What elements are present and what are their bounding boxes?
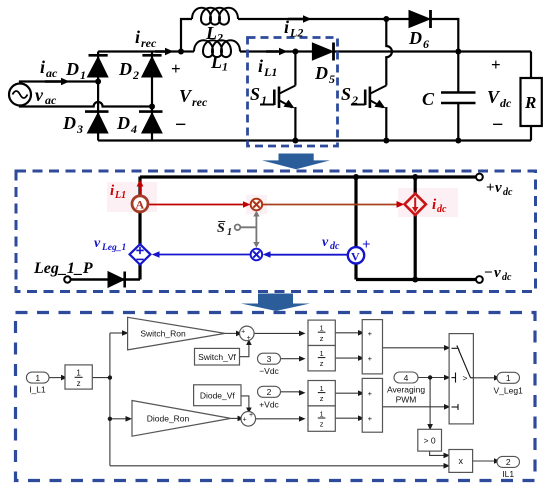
svg-text:1: 1 — [227, 227, 232, 238]
wire port4 down to gt0 — [429, 378, 431, 425]
big arrow 2 — [241, 294, 310, 312]
wire vertical leg left (diamond/ammeter) — [138, 177, 141, 280]
wire vertical idc — [414, 177, 417, 280]
diode D5 body handled below — [334, 50, 532, 52]
svg-text:L1: L1 — [114, 190, 126, 201]
svg-text:z: z — [77, 379, 81, 388]
wire ac bottom (hop over left leg) — [20, 102, 152, 107]
svg-text:V: V — [351, 250, 360, 264]
gain Switch_Ron — [128, 317, 225, 350]
wire switch out — [473, 377, 494, 379]
labels middle panel — [33, 180, 513, 283]
inductor L1 — [194, 40, 240, 57]
svg-text:+: + — [486, 180, 495, 196]
red line multiplier->idc diamond — [262, 204, 397, 206]
unit delay b4 — [308, 406, 335, 431]
svg-text:+Vdc: +Vdc — [259, 399, 279, 409]
svg-text:+: + — [491, 55, 501, 74]
gray S1 control — [235, 211, 260, 248]
svg-text:−: − — [175, 114, 186, 136]
port 2 IL1 — [497, 456, 520, 467]
wire Switch_Ron out — [225, 332, 236, 334]
wire sum2 out — [255, 418, 299, 420]
port 1 I_L1 — [26, 372, 49, 383]
diode D6 — [409, 10, 431, 28]
unit delay 1/z main — [65, 365, 92, 389]
svg-text:+: + — [243, 417, 247, 424]
svg-text:D: D — [118, 59, 132, 79]
svg-text:S: S — [341, 84, 351, 104]
svg-text:1: 1 — [320, 409, 324, 418]
capacitor C leads — [457, 52, 459, 141]
svg-text:D: D — [62, 113, 76, 133]
svg-text:Switch_Ron: Switch_Ron — [140, 329, 186, 339]
svg-text:1: 1 — [222, 60, 228, 74]
svg-text:−: − — [492, 114, 503, 136]
transistor S2 — [351, 86, 386, 141]
sum2 — [241, 412, 256, 427]
wire b3 to sumrect2 — [335, 392, 358, 394]
svg-text:dc: dc — [437, 204, 447, 215]
svg-text:D: D — [65, 59, 79, 79]
svg-text:z: z — [320, 420, 324, 429]
current arrows top — [45, 15, 312, 85]
junction dots top circuit — [95, 16, 461, 144]
block Diode_Vf — [194, 385, 241, 406]
ammeter A — [132, 196, 148, 212]
red measurement line ammeter->multiplier — [137, 180, 405, 208]
svg-text:z: z — [320, 334, 324, 343]
svg-text:2: 2 — [267, 387, 272, 397]
block product x — [449, 450, 473, 473]
wire Switch_Vf out up to sum — [240, 345, 249, 357]
diode D3 — [85, 112, 109, 133]
wire bottom rail — [98, 139, 531, 141]
svg-text:−Vdc: −Vdc — [259, 366, 279, 376]
unit delay b1 — [308, 320, 335, 345]
wire vertical vdc — [354, 177, 357, 280]
svg-text:D: D — [408, 28, 422, 48]
svg-text:dc: dc — [500, 96, 512, 110]
svg-text:i: i — [258, 56, 263, 76]
svg-text:3: 3 — [267, 354, 272, 364]
svg-text:C: C — [422, 89, 435, 109]
wire port4 to switch — [418, 377, 444, 379]
svg-text:L: L — [210, 52, 222, 72]
wire ac top — [20, 82, 98, 84]
voltmeter v_dc — [348, 247, 364, 263]
block Switch_Vf — [195, 348, 240, 365]
wire Diode_Ron out — [231, 417, 238, 419]
svg-text:+: + — [368, 389, 373, 398]
junction dots bottom — [108, 375, 433, 421]
red multiplier — [251, 199, 263, 211]
wire Diode_Vf out down to sum — [241, 396, 249, 408]
blue lines voltmeter->multiplier->diamond — [152, 251, 348, 258]
wire gt0 out to product — [430, 451, 444, 455]
bottom dashed box — [16, 313, 536, 481]
svg-text:+: + — [368, 354, 373, 363]
svg-text:D: D — [314, 63, 328, 83]
svg-text:1: 1 — [320, 324, 324, 333]
svg-text:Leg_1: Leg_1 — [101, 243, 126, 253]
svg-text:I_L1: I_L1 — [29, 385, 46, 395]
wire left bottom (Leg_1_P) — [70, 278, 140, 281]
svg-text:1: 1 — [506, 373, 511, 383]
diode D4 — [139, 112, 163, 133]
wire unit delay out — [92, 377, 110, 379]
wire to Switch_Ron — [110, 332, 122, 334]
resistor R leads — [530, 52, 532, 141]
svg-text:4: 4 — [404, 373, 409, 383]
unit delay b2 — [308, 346, 335, 371]
svg-text:dc: dc — [502, 272, 512, 283]
arrow i_L2 — [288, 15, 312, 22]
current source idc diamond — [405, 194, 426, 215]
svg-text:Diode_Ron: Diode_Ron — [147, 414, 190, 424]
svg-text:dc: dc — [503, 187, 513, 198]
port 3 -Vdc — [258, 353, 281, 364]
svg-text:V_Leg1: V_Leg1 — [494, 386, 524, 396]
wire sumrect1 to switch — [383, 347, 445, 349]
wire L1 to D5 — [240, 50, 312, 52]
port 2 +Vdc — [258, 386, 281, 397]
svg-text:−: − — [484, 265, 493, 281]
Leg-1 dashed box — [248, 38, 338, 147]
diode D5 — [312, 43, 333, 61]
middle dashed box — [16, 171, 536, 292]
svg-text:Switch_Vf: Switch_Vf — [198, 352, 236, 362]
svg-text:3: 3 — [76, 122, 83, 136]
svg-text:S̅: S̅ — [217, 220, 226, 236]
svg-text:1: 1 — [261, 93, 267, 107]
wire D6 to drop — [431, 19, 459, 52]
sum1 — [240, 326, 255, 341]
wire b2 to sumrect1 — [335, 357, 358, 359]
svg-text:+: + — [241, 329, 245, 336]
svg-text:5: 5 — [329, 72, 335, 86]
terminal Leg_1_P — [64, 276, 70, 282]
svg-text:Averaging: Averaging — [387, 385, 425, 395]
ac source vac — [9, 84, 31, 106]
sumrect2 — [362, 378, 382, 432]
svg-text:4: 4 — [130, 122, 137, 136]
svg-text:V: V — [179, 86, 193, 106]
sumrect1 — [362, 320, 382, 374]
wire port3 to b2 — [281, 358, 300, 360]
svg-text:D: D — [116, 113, 130, 133]
wire L2 row to D6 — [238, 18, 409, 20]
svg-text:+: + — [368, 329, 373, 338]
wire vertical branch — [109, 333, 111, 466]
wire sum1 out — [254, 332, 299, 334]
wire bottom long to product — [110, 465, 444, 467]
svg-text:v: v — [35, 85, 44, 105]
svg-text:> 0: > 0 — [424, 435, 436, 445]
svg-text:1: 1 — [320, 384, 324, 393]
voltage source v_Leg_1 diamond — [130, 244, 151, 264]
svg-text:i: i — [135, 27, 140, 47]
svg-text:V: V — [487, 87, 501, 107]
arrowheads bottom — [61, 330, 501, 469]
svg-text:L1: L1 — [263, 65, 277, 79]
svg-text:2: 2 — [216, 31, 223, 45]
wire bridge right leg — [151, 52, 153, 141]
svg-text:L2: L2 — [289, 26, 303, 40]
inductor L2 — [192, 8, 238, 25]
terminal -v_dc — [476, 276, 483, 283]
arrow i_rec — [155, 48, 174, 55]
blue multiplier — [251, 249, 263, 261]
port 1 V_Leg1 — [497, 372, 520, 383]
wire b4 to sumrect2 — [335, 417, 358, 419]
svg-text:+: + — [247, 335, 251, 342]
terminal +v_dc — [476, 174, 483, 181]
svg-text:ac: ac — [46, 66, 58, 80]
svg-text:+: + — [249, 412, 253, 419]
svg-text:6: 6 — [423, 37, 429, 51]
block gt0 — [418, 429, 442, 451]
svg-text:i: i — [284, 17, 289, 37]
arrow i_ac — [45, 78, 70, 85]
svg-text:rec: rec — [141, 36, 157, 50]
wire port2 to b3 — [281, 392, 300, 393]
svg-text:2: 2 — [132, 68, 139, 82]
capacitor C plates — [441, 93, 476, 104]
wire riser to L2 row — [181, 19, 192, 52]
junction dots middle — [353, 174, 418, 283]
wire S2 hop over L1 row — [386, 19, 392, 86]
diode Leg_1_P — [108, 272, 125, 288]
svg-text:1: 1 — [320, 349, 324, 358]
svg-text:+: + — [362, 237, 371, 253]
big arrow 1 — [262, 154, 330, 170]
svg-text:rec: rec — [192, 95, 208, 109]
switch block — [449, 334, 473, 424]
wire bottom right rail — [356, 278, 479, 281]
svg-text:1: 1 — [35, 373, 40, 383]
svg-text:v: v — [322, 235, 329, 250]
wire to Diode_Ron — [110, 418, 126, 420]
transistor S1 — [260, 52, 295, 141]
svg-text:2: 2 — [351, 93, 358, 107]
wire port1 to unit delay — [49, 377, 61, 379]
svg-text:PWM: PWM — [396, 395, 417, 405]
svg-text:IL1: IL1 — [502, 469, 514, 479]
svg-text:Diode_Vf: Diode_Vf — [200, 390, 236, 400]
svg-text:+: + — [368, 414, 373, 423]
svg-text:+: + — [171, 59, 181, 78]
svg-text:ac: ac — [45, 93, 57, 107]
svg-text:Leg_1_P: Leg_1_P — [33, 260, 93, 277]
red arrow iL1 up — [139, 185, 141, 196]
diode D1 — [88, 55, 108, 77]
wire sumrect2 to switch — [383, 406, 445, 408]
svg-text:z: z — [320, 359, 324, 368]
resistor R box — [521, 78, 542, 126]
svg-text:dc: dc — [330, 241, 340, 252]
unit delay b3 — [308, 381, 335, 406]
wire b1 to sumrect1 — [335, 332, 358, 334]
wire L1 row — [181, 50, 194, 52]
svg-text:v: v — [494, 265, 501, 281]
diode D2 — [142, 55, 162, 77]
svg-text:z: z — [320, 394, 324, 403]
svg-text:>: > — [463, 373, 468, 383]
gain Diode_Ron — [132, 401, 231, 437]
labels top circuit — [35, 17, 536, 136]
svg-text:i: i — [40, 57, 45, 77]
svg-text:1: 1 — [80, 68, 86, 82]
svg-text:2: 2 — [506, 457, 511, 467]
svg-text:S: S — [250, 84, 260, 104]
wire top thick rail — [140, 175, 479, 178]
wire bridge left leg — [97, 52, 99, 141]
wire bridge top rail — [98, 50, 181, 52]
arrow i_L1 — [266, 48, 288, 55]
svg-text:L: L — [205, 23, 217, 43]
svg-text:x: x — [458, 456, 463, 466]
svg-text:v: v — [94, 236, 101, 251]
pink halo behind red items — [107, 182, 157, 212]
wire product out — [473, 460, 494, 462]
svg-text:1: 1 — [76, 369, 81, 378]
svg-text:A: A — [136, 198, 145, 212]
port 4 Averaging PWM — [394, 372, 418, 383]
svg-text:R: R — [524, 93, 536, 112]
svg-text:v: v — [495, 180, 502, 196]
